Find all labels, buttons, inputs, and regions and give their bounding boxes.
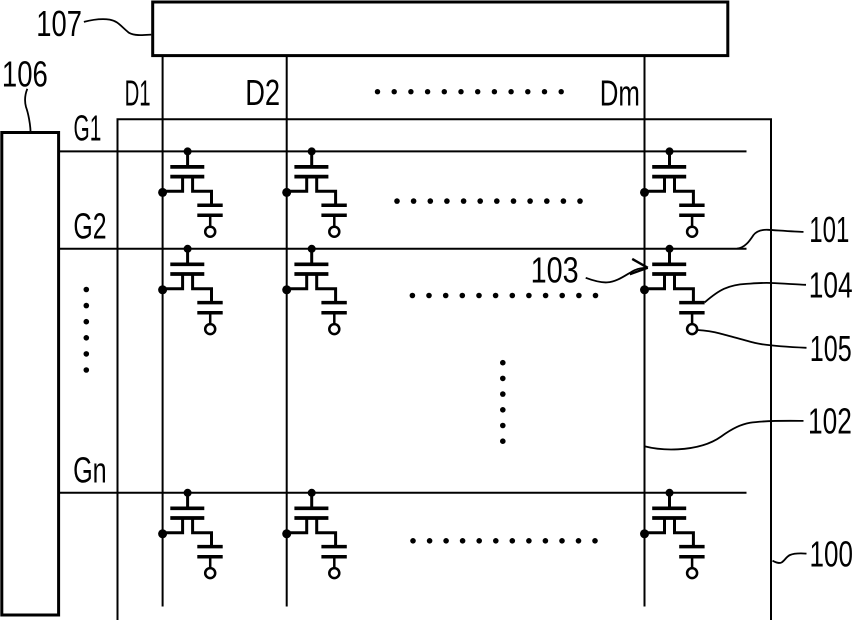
transistor Q_Gn_Dm (103) gate bar xyxy=(652,506,686,510)
svg-text:106: 106 xyxy=(2,54,48,95)
wire: capacitor to pixel electrode terminal xyxy=(209,217,212,227)
transistor Q_G2_D2 (103) gate bar xyxy=(294,262,328,266)
wire: capacitor to pixel electrode terminal xyxy=(691,314,694,324)
wire: capacitor to pixel electrode terminal xyxy=(333,558,336,568)
capacitor C_Gn_Dm (104) top plate xyxy=(679,545,704,549)
capacitor C_G1_D2 (104) bottom plate xyxy=(321,214,346,218)
leader line for label 102 (data line) xyxy=(645,421,804,450)
capacitor C_G1_Dm (104) bottom plate xyxy=(679,214,704,218)
wire: gate stub of TFT Q_G2_Dm xyxy=(668,249,671,264)
transistor Q_G2_D1 (103) channel bar xyxy=(170,272,204,276)
wire: TFT Q_G1_D2 drain to storage capacitor xyxy=(317,177,336,204)
transistor Q_G1_D2 (103) channel bar xyxy=(294,175,328,179)
wire: capacitor to pixel electrode terminal xyxy=(209,314,212,324)
capacitor C_G2_D2 (104) bottom plate xyxy=(321,311,346,315)
junction dot: data line D1 to TFT Q_G2_D1 source xyxy=(158,285,167,294)
svg-text:107: 107 xyxy=(36,3,82,44)
svg-text:105: 105 xyxy=(810,328,852,369)
capacitor C_Gn_D1 (104) bottom plate xyxy=(197,555,222,559)
pixel electrode terminal (105) of cell G1/Dm xyxy=(687,227,697,237)
data line Dm (102) xyxy=(644,57,646,607)
junction dot: data line D1 to TFT Q_Gn_D1 source xyxy=(158,529,167,538)
transistor Q_G1_D1 (103) channel bar xyxy=(170,175,204,179)
capacitor C_Gn_Dm (104) bottom plate xyxy=(679,555,704,559)
junction dot: gate line Gn to TFT Q_Gn_Dm gate xyxy=(666,489,674,497)
wire: TFT Q_G2_D1 source to data line D1 xyxy=(163,274,183,289)
transistor Q_Gn_D2 (103) channel bar xyxy=(294,516,328,520)
svg-text:G2: G2 xyxy=(73,206,106,247)
leader line for label 100 (panel) xyxy=(773,553,807,563)
capacitor C_G1_D2 (104) top plate xyxy=(321,203,346,207)
pixel electrode terminal (105) of cell Gn/D1 xyxy=(205,568,215,578)
capacitor C_G2_Dm (104) bottom plate xyxy=(679,311,704,315)
wire: TFT Q_G2_D2 source to data line D2 xyxy=(287,274,307,289)
junction dot: gate line G2 to TFT Q_G2_D1 gate xyxy=(184,245,192,253)
pixel electrode terminal (105) of cell Gn/D2 xyxy=(329,568,339,578)
ellipsis dots between G2 and Gn (middle) xyxy=(500,360,506,444)
wire: TFT Q_G1_Dm drain to storage capacitor xyxy=(675,177,694,204)
junction dot: gate line Gn to TFT Q_Gn_D2 gate xyxy=(308,489,316,497)
transistor Q_Gn_D2 (103) gate bar xyxy=(294,506,328,510)
capacitor C_G1_D1 (104) bottom plate xyxy=(197,214,222,218)
svg-text:103: 103 xyxy=(531,249,579,290)
leader arrow for label 103 arrowhead xyxy=(630,259,648,274)
wire: TFT Q_Gn_Dm drain to storage capacitor xyxy=(675,518,694,545)
wire: TFT Q_G2_Dm drain to storage capacitor xyxy=(675,274,694,301)
svg-text:G1: G1 xyxy=(74,108,102,149)
junction dot: gate line G1 to TFT Q_G1_Dm gate xyxy=(666,147,674,155)
junction dot: gate line G2 to TFT Q_G2_Dm gate xyxy=(666,245,674,253)
wire: gate stub of TFT Q_Gn_D2 xyxy=(310,493,313,508)
pixel electrode terminal (105) of cell Gn/Dm xyxy=(687,568,697,578)
svg-text:Gn: Gn xyxy=(73,450,107,491)
svg-text:104: 104 xyxy=(809,264,852,305)
leader line for label 101 (gate line) xyxy=(737,230,804,249)
pixel electrode terminal (105) of cell G2/D2 xyxy=(329,324,339,334)
wire: TFT Q_G1_D2 source to data line D2 xyxy=(287,177,307,192)
ellipsis dots row G2 xyxy=(410,293,599,299)
wire: TFT Q_G1_D1 drain to storage capacitor xyxy=(193,177,212,204)
leader line for label 104 (storage capacitor) xyxy=(705,283,806,303)
data line D2 (102) xyxy=(286,57,288,607)
display panel outline 100 xyxy=(118,119,772,620)
svg-text:Dm: Dm xyxy=(600,72,640,114)
svg-text:D2: D2 xyxy=(245,72,280,113)
capacitor C_G1_D1 (104) top plate xyxy=(197,203,222,207)
transistor Q_Gn_D1 (103) channel bar xyxy=(170,516,204,520)
data driver block U107 xyxy=(153,2,728,56)
wire: TFT Q_Gn_Dm source to data line Dm xyxy=(645,518,665,533)
ellipsis dots between G2 and Gn (left) xyxy=(84,287,90,373)
transistor Q_G1_D1 (103) gate bar xyxy=(170,165,204,169)
wire: gate stub of TFT Q_G1_D2 xyxy=(310,151,313,166)
capacitor C_Gn_D2 (104) bottom plate xyxy=(321,555,346,559)
junction dot: gate line G1 to TFT Q_G1_D1 gate xyxy=(184,147,192,155)
wire: capacitor to pixel electrode terminal xyxy=(209,558,212,568)
wire: TFT Q_Gn_D1 drain to storage capacitor xyxy=(193,518,212,545)
junction dot: data line D1 to TFT Q_G1_D1 source xyxy=(158,188,167,197)
wire: TFT Q_Gn_D2 drain to storage capacitor xyxy=(317,518,336,545)
wire: gate stub of TFT Q_G2_D1 xyxy=(186,249,189,264)
wire: capacitor to pixel electrode terminal xyxy=(333,314,336,324)
wire: gate stub of TFT Q_Gn_D1 xyxy=(186,493,189,508)
transistor Q_G1_Dm (103) gate bar xyxy=(652,165,686,169)
wire: TFT Q_Gn_D1 source to data line D1 xyxy=(163,518,183,533)
capacitor C_Gn_D2 (104) top plate xyxy=(321,545,346,549)
svg-text:101: 101 xyxy=(809,209,849,250)
junction dot: data line D2 to TFT Q_G1_D2 source xyxy=(282,188,291,197)
data line D1 (102) xyxy=(162,57,164,607)
pixel electrode terminal (105) of cell G2/D1 xyxy=(205,324,215,334)
svg-text:D1: D1 xyxy=(125,73,151,114)
transistor Q_G2_D1 (103) gate bar xyxy=(170,262,204,266)
wire: capacitor to pixel electrode terminal xyxy=(691,217,694,227)
junction dot: data line Dm to TFT Q_Gn_Dm source xyxy=(640,529,649,538)
wire: gate stub of TFT Q_G2_D2 xyxy=(310,249,313,264)
pixel electrode terminal (105) of cell G2/Dm xyxy=(687,324,697,334)
ellipsis dots row G1 xyxy=(394,198,583,204)
capacitor C_Gn_D1 (104) top plate xyxy=(197,545,222,549)
transistor Q_Gn_Dm (103) channel bar xyxy=(652,516,686,520)
leader line for label 105 (pixel electrode) xyxy=(697,330,806,348)
wire: gate stub of TFT Q_G1_Dm xyxy=(668,151,671,166)
wire: capacitor to pixel electrode terminal xyxy=(333,217,336,227)
junction dot: data line Dm to TFT Q_G1_Dm source xyxy=(640,188,649,197)
transistor Q_G2_Dm (103) channel bar xyxy=(652,272,686,276)
junction dot: gate line G2 to TFT Q_G2_D2 gate xyxy=(308,245,316,253)
ellipsis dots row Gn xyxy=(410,538,598,544)
transistor Q_G1_Dm (103) channel bar xyxy=(652,175,686,179)
wire: TFT Q_G1_Dm source to data line Dm xyxy=(645,177,665,192)
wire: TFT Q_G2_D1 drain to storage capacitor xyxy=(193,274,212,301)
svg-text:100: 100 xyxy=(810,533,852,574)
gate line G2 (101) xyxy=(59,248,747,250)
junction dot: data line Dm to TFT Q_G2_Dm source xyxy=(640,285,649,294)
wire: TFT Q_G1_D1 source to data line D1 xyxy=(163,177,183,192)
capacitor C_G2_D1 (104) top plate xyxy=(197,301,222,305)
pixel electrode terminal (105) of cell G1/D2 xyxy=(329,227,339,237)
capacitor C_G2_D2 (104) top plate xyxy=(321,301,346,305)
capacitor C_G2_Dm (104) top plate xyxy=(679,301,704,305)
wire: TFT Q_G2_Dm source to data line Dm xyxy=(645,274,665,289)
wire: capacitor to pixel electrode terminal xyxy=(691,558,694,568)
junction dot: data line D2 to TFT Q_G2_D2 source xyxy=(282,285,291,294)
transistor Q_G1_D2 (103) gate bar xyxy=(294,165,328,169)
gate driver block U106 xyxy=(2,133,59,616)
transistor Q_G2_Dm (103) gate bar xyxy=(652,262,686,266)
wire: gate stub of TFT Q_Gn_Dm xyxy=(668,493,671,508)
wire: TFT Q_Gn_D2 source to data line D2 xyxy=(287,518,307,533)
ellipsis dots between D2 and Dm (top) xyxy=(375,89,564,94)
gate line Gn (101) xyxy=(59,492,747,494)
junction dot: gate line G1 to TFT Q_G1_D2 gate xyxy=(308,147,316,155)
capacitor C_G1_Dm (104) top plate xyxy=(679,203,704,207)
svg-text:102: 102 xyxy=(808,400,852,441)
wire: gate stub of TFT Q_G1_D1 xyxy=(186,151,189,166)
capacitor C_G2_D1 (104) bottom plate xyxy=(197,311,222,315)
leader line for label 107 xyxy=(84,19,151,35)
gate line G1 (101) xyxy=(59,150,747,152)
junction dot: data line D2 to TFT Q_Gn_D2 source xyxy=(282,529,291,538)
leader arrow for label 103 (TFT) shaft xyxy=(586,268,647,283)
transistor Q_G2_D2 (103) channel bar xyxy=(294,272,328,276)
wire: TFT Q_G2_D2 drain to storage capacitor xyxy=(317,274,336,301)
pixel electrode terminal (105) of cell G1/D1 xyxy=(205,227,215,237)
transistor Q_Gn_D1 (103) gate bar xyxy=(170,506,204,510)
junction dot: gate line Gn to TFT Q_Gn_D1 gate xyxy=(184,489,192,497)
leader line for label 106 xyxy=(25,89,30,131)
